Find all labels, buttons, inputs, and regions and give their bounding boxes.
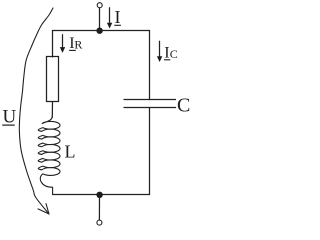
svg-text:I: I [164, 45, 169, 62]
terminal bottom [97, 220, 102, 225]
svg-text:C: C [177, 95, 190, 117]
current arrow IC [157, 41, 162, 62]
wire left vertical to resistor [52, 31, 54, 58]
wire right vertical lower [149, 108, 151, 195]
capacitor C [124, 100, 176, 108]
inductor L [38, 117, 60, 195]
wire top stub [99, 8, 101, 31]
current arrow IR [60, 35, 65, 53]
current arrow I [107, 8, 112, 29]
svg-text:L: L [65, 142, 76, 162]
wire right vertical upper [149, 31, 151, 100]
label I [114, 7, 121, 27]
voltage arrow U arc [19, 8, 53, 214]
svg-text:I: I [115, 7, 121, 27]
terminal top [97, 3, 102, 8]
resistor R [47, 57, 59, 102]
wire bottom stub [98, 195, 100, 220]
node top junction [96, 28, 102, 34]
svg-text:R: R [74, 38, 82, 52]
label U [2, 107, 16, 128]
label IR [69, 35, 82, 52]
node bottom junction [96, 192, 102, 198]
wire top [53, 30, 150, 32]
wire resistor to inductor [51, 102, 53, 118]
label IC [164, 45, 178, 62]
svg-text:C: C [170, 47, 178, 61]
svg-text:U: U [3, 107, 17, 128]
wire bottom [53, 194, 150, 196]
